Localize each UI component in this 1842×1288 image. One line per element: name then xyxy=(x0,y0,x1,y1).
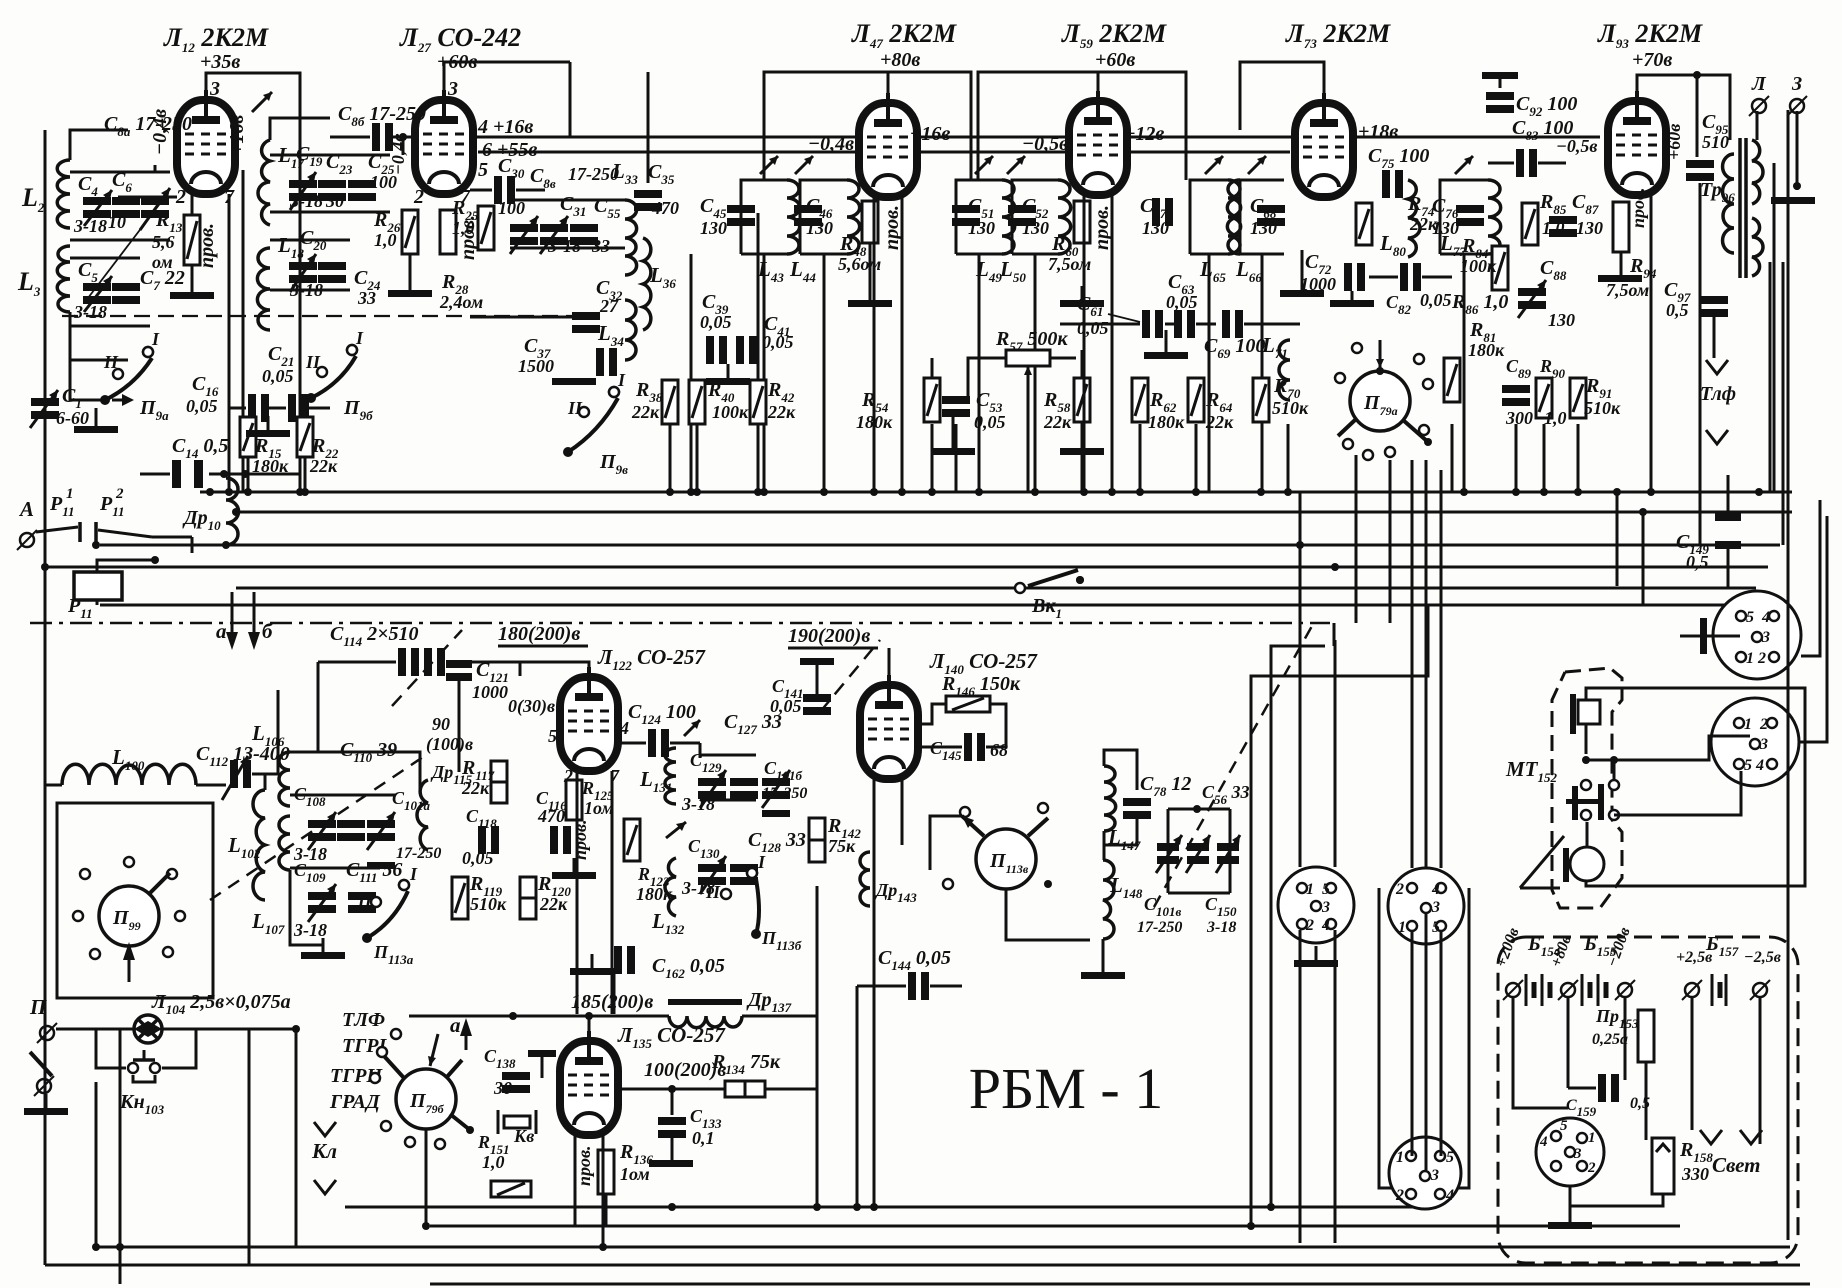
label C67 130 xyxy=(1140,195,1169,238)
speaker xyxy=(1563,847,1604,882)
wire C78 bottom xyxy=(1104,813,1137,845)
junction xyxy=(1793,182,1801,190)
wire C124 xyxy=(618,742,646,745)
wire xyxy=(1299,492,1302,867)
tank circuit L44/C46 xyxy=(800,180,860,254)
wire right edge xyxy=(1799,516,1827,742)
capacitor C110 xyxy=(337,820,365,828)
svg-text:1: 1 xyxy=(1306,881,1314,898)
junction xyxy=(222,541,230,549)
svg-text:0,05: 0,05 xyxy=(186,396,218,416)
wire R136 drop xyxy=(605,1194,608,1226)
wire C30 right xyxy=(516,189,545,192)
wire xyxy=(1425,460,1428,868)
wire mid xyxy=(1613,760,1616,779)
tube Л93 xyxy=(1608,91,1666,195)
svg-text:6-60: 6-60 xyxy=(56,408,89,428)
junction xyxy=(399,133,407,141)
svg-text:пров.: пров. xyxy=(574,1145,594,1186)
resistor R25 xyxy=(478,206,494,250)
wire xyxy=(1463,254,1466,492)
wire left col 3 xyxy=(295,1029,298,1247)
switch П9а xyxy=(100,329,160,405)
wire Л135 pin drop xyxy=(574,1135,577,1226)
wire xyxy=(1139,424,1142,492)
wire П79б drop xyxy=(425,1129,428,1226)
svg-text:+80в: +80в xyxy=(880,49,920,71)
wire anode rail xyxy=(978,72,1186,180)
svg-text:130: 130 xyxy=(806,218,833,238)
label R58 22К xyxy=(1043,389,1072,432)
label C30 100 xyxy=(498,155,525,218)
wire C149 top xyxy=(1727,475,1730,513)
svg-text:5: 5 xyxy=(1746,609,1754,626)
wire anode up xyxy=(1240,62,1324,130)
wire drop x403 xyxy=(402,137,405,155)
label C97 0,5 xyxy=(1664,279,1691,320)
wire contacts xyxy=(36,522,192,553)
wire +16В drop xyxy=(242,170,245,492)
svg-text:−0,4в: −0,4в xyxy=(808,133,854,155)
wire Л135 pin drop2 xyxy=(602,1135,605,1247)
wire C53 gnd xyxy=(952,417,955,448)
resistor R64 xyxy=(1188,378,1204,422)
terminal −2,5В xyxy=(1744,949,1781,1000)
cable wires 2 xyxy=(1412,912,1441,1170)
resistor R48 xyxy=(862,201,878,243)
junction xyxy=(206,488,214,496)
svg-text:10: 10 xyxy=(108,212,126,232)
wire caps top xyxy=(290,752,420,790)
capacitor C89 xyxy=(1502,385,1530,393)
net +16В rail xyxy=(473,136,1600,139)
capacitor C87 xyxy=(1549,216,1577,224)
resistor R13 xyxy=(184,215,200,265)
svg-text:1,0: 1,0 xyxy=(482,1152,505,1172)
contact Р11-2 xyxy=(99,486,125,519)
svg-text:5: 5 xyxy=(1560,1118,1568,1134)
trimmer arrow L77 xyxy=(1455,156,1473,174)
wire caps top xyxy=(700,754,756,757)
wire caps row xyxy=(229,407,246,410)
capacitor C138 xyxy=(502,1072,530,1080)
resistor R125 xyxy=(566,780,582,820)
mic bar xyxy=(1570,694,1576,734)
svg-text:510к: 510к xyxy=(1584,398,1621,418)
wire cathode xyxy=(1301,250,1304,290)
wire C145 xyxy=(918,746,962,749)
switch П9б xyxy=(305,328,364,403)
wire C121 down xyxy=(458,680,461,772)
label C159 0,5 xyxy=(1566,1095,1650,1119)
wire C30 xyxy=(470,189,492,192)
ground З xyxy=(1771,197,1815,204)
junction xyxy=(1512,488,1520,496)
junction xyxy=(687,488,695,496)
label C145 68 xyxy=(930,738,1008,763)
ground P1 xyxy=(1315,946,1318,960)
inductor L17 xyxy=(258,140,270,225)
svg-text:Свет: Свет xyxy=(1712,1153,1761,1177)
box caps xyxy=(1168,809,1230,893)
handset loop wire xyxy=(1586,688,1805,886)
resistor R60 xyxy=(1074,201,1090,243)
resistor R54 xyxy=(924,378,940,422)
label R40 100К xyxy=(707,379,749,422)
resistor R84 xyxy=(1492,246,1508,290)
wire R13 bottom xyxy=(191,265,194,292)
junction xyxy=(813,1203,821,1211)
capacitor C46 xyxy=(794,205,822,213)
svg-text:1: 1 xyxy=(1744,716,1752,733)
svg-text:−2,5в: −2,5в xyxy=(1744,949,1781,966)
capacitor C52 xyxy=(1008,205,1036,213)
junction xyxy=(870,488,878,496)
capacitor C141 xyxy=(803,694,831,702)
wire C83 right xyxy=(1538,162,1566,165)
wire relay top xyxy=(97,560,155,572)
wire xyxy=(1334,640,1337,867)
svg-text:470: 470 xyxy=(537,806,565,826)
svg-text:3: 3 xyxy=(1759,736,1768,753)
svg-text:0,05: 0,05 xyxy=(762,332,794,352)
svg-text:1: 1 xyxy=(66,486,74,502)
wire L2 top xyxy=(70,130,128,160)
junction xyxy=(870,1203,878,1211)
label R15 180К xyxy=(252,435,289,476)
svg-text:3: 3 xyxy=(1321,899,1330,916)
resistor R15 xyxy=(240,417,256,457)
resistor R62 xyxy=(1132,378,1148,422)
label R142 75К xyxy=(827,815,861,856)
svg-text:100: 100 xyxy=(370,172,397,192)
pointer line C61 xyxy=(1108,314,1140,322)
label C76 130 xyxy=(1432,195,1459,238)
wire row1 top xyxy=(270,154,390,157)
wire xyxy=(696,424,699,492)
dashed diag 2 xyxy=(820,640,880,712)
label C61 0,05 xyxy=(1077,293,1109,338)
label C8в 17-250 xyxy=(530,164,619,191)
resistor R158 xyxy=(1652,1138,1674,1194)
wire xyxy=(1773,163,1776,492)
label R81 180К xyxy=(1468,319,1505,360)
svg-text:а: а xyxy=(216,619,227,643)
inductor L106 xyxy=(279,752,290,806)
svg-text:130: 130 xyxy=(1142,218,1169,238)
capacitor C69 xyxy=(1222,310,1230,338)
wire anode to +35В rail xyxy=(206,73,300,492)
svg-text:I: I xyxy=(151,329,160,349)
switch П9в xyxy=(563,370,626,457)
label C72 1000 xyxy=(1300,251,1336,294)
svg-text:ТЛФ: ТЛФ xyxy=(342,1009,385,1031)
connector P2 bottom xyxy=(1389,1137,1461,1209)
battery box xyxy=(1498,937,1798,1263)
wire R134 right xyxy=(765,1088,817,1091)
wire C97 to Тлф xyxy=(1713,312,1716,358)
capacitor C127 xyxy=(730,778,758,786)
svg-text:4: 4 xyxy=(1431,881,1440,898)
wire C144 right xyxy=(930,985,962,988)
wire C1 gnd stem xyxy=(95,408,98,426)
wire xyxy=(1034,254,1037,492)
wire xyxy=(100,604,1744,607)
net: chassis dash-dot line xyxy=(30,622,1330,625)
ground R58 xyxy=(1060,448,1104,455)
connector P2 top xyxy=(1388,868,1464,944)
rotary switch П79б xyxy=(370,1029,474,1149)
fuse Пр153 xyxy=(1638,1010,1654,1062)
terminal −200В xyxy=(1604,925,1635,1000)
connector circle 1 xyxy=(1713,591,1801,679)
wire caps row xyxy=(290,794,395,797)
inductor L18 xyxy=(257,248,270,330)
wire xyxy=(1261,254,1264,492)
ground C72 xyxy=(1330,300,1374,307)
resistor R117 xyxy=(491,761,507,803)
label R62 180К xyxy=(1148,389,1185,432)
svg-text:2,4ом: 2,4ом xyxy=(439,292,483,312)
capacitor C118 xyxy=(478,826,486,854)
capacitor C114 2×510 xyxy=(398,648,445,676)
trimmer arrow 2 xyxy=(666,822,686,838)
capacitor C8б xyxy=(372,123,380,151)
junction xyxy=(232,508,240,516)
trimmer arrow L50 xyxy=(1007,156,1025,174)
long dashed diagonal 2 xyxy=(1154,626,1312,907)
capacitor C61 xyxy=(1142,310,1150,338)
junction xyxy=(292,1025,300,1033)
capacitor C45 xyxy=(727,205,755,213)
resistor R90 xyxy=(1536,378,1552,418)
trimmer arrow L17 xyxy=(252,92,272,112)
capacitor C95 xyxy=(1686,160,1714,168)
svg-text:+60в: +60в xyxy=(1095,49,1135,71)
junction xyxy=(151,556,159,564)
wire mic stub xyxy=(1585,724,1588,754)
svg-text:2: 2 xyxy=(1587,1160,1596,1176)
svg-text:0(30)в: 0(30)в xyxy=(508,696,555,717)
label R136 1ом xyxy=(619,1141,653,1184)
svg-text:+60в: +60в xyxy=(1664,124,1684,160)
svg-text:5,6: 5,6 xyxy=(152,232,175,252)
wire C141 xyxy=(816,665,819,694)
long dashed diagonal (gang link) xyxy=(210,757,423,900)
capacitor C112 trimmer xyxy=(222,756,251,800)
label C87 130 xyxy=(1572,191,1603,238)
wire xyxy=(100,544,1780,547)
junction xyxy=(1076,576,1084,584)
label C118 0,05 xyxy=(462,806,497,868)
junction xyxy=(225,488,233,496)
wire anode up xyxy=(588,1014,591,1042)
label C101б 17-250 xyxy=(762,758,807,802)
resistor R134 xyxy=(725,1081,765,1097)
svg-text:510: 510 xyxy=(1702,132,1729,152)
svg-text:2: 2 xyxy=(1395,1187,1404,1204)
wire C112 right xyxy=(252,690,278,774)
svg-text:Кл: Кл xyxy=(311,1139,337,1163)
wire anode up xyxy=(888,648,891,686)
net 90(100)В xyxy=(426,714,473,755)
junction xyxy=(220,470,228,478)
svg-text:−0,5в: −0,5в xyxy=(1556,136,1597,156)
net а arrow xyxy=(216,592,238,650)
svg-text:+18в: +18в xyxy=(1358,121,1398,143)
svg-text:1: 1 xyxy=(1396,1149,1404,1166)
svg-text:17-250: 17-250 xyxy=(762,785,807,802)
trimmer arrow L66 xyxy=(1248,156,1266,174)
label C16 0,05 xyxy=(186,373,219,416)
wire xyxy=(978,254,981,492)
wire anode up xyxy=(887,72,890,104)
wire C5 row bottom xyxy=(70,325,150,328)
wire xyxy=(1355,455,1358,623)
wire gnd xyxy=(290,870,323,945)
svg-text:3: 3 xyxy=(1761,629,1770,646)
svg-text:17-250: 17-250 xyxy=(396,845,441,862)
wire caps mid xyxy=(268,407,286,410)
resistor R151 xyxy=(491,1181,531,1197)
ground R60 xyxy=(1081,286,1084,300)
svg-text:З: З xyxy=(1791,73,1802,95)
resistor R94 xyxy=(1613,202,1629,252)
svg-text:1,0: 1,0 xyxy=(374,230,397,250)
svg-text:27: 27 xyxy=(599,296,619,316)
ground C16 C21 xyxy=(267,416,270,430)
wire cap row top xyxy=(70,171,170,174)
wire xyxy=(1411,460,1414,868)
svg-text:0,5: 0,5 xyxy=(1666,300,1689,320)
svg-text:Л: Л xyxy=(1751,73,1767,95)
capacitor C39 xyxy=(706,336,714,364)
box L100 xyxy=(57,803,213,998)
junction xyxy=(41,563,49,571)
bar C101б xyxy=(762,810,790,817)
svg-text:II: II xyxy=(305,352,321,372)
resistor R85 xyxy=(1522,203,1538,245)
wire R134 xyxy=(618,1088,725,1091)
terminal +200В xyxy=(1493,926,1523,1000)
capacitor C78 xyxy=(1123,798,1151,806)
svg-text:100к: 100к xyxy=(1460,256,1497,276)
junction xyxy=(668,1085,676,1093)
svg-text:А: А xyxy=(18,497,34,521)
svg-text:22к: 22к xyxy=(767,402,796,422)
label C52 130 xyxy=(1022,195,1049,238)
svg-text:4: 4 xyxy=(1755,757,1764,774)
label Кл xyxy=(311,1122,337,1194)
wire to pin5 xyxy=(1614,771,1741,815)
label R28 2,4ом xyxy=(439,271,483,312)
junction xyxy=(92,1243,100,1251)
svg-text:II: II xyxy=(357,890,373,910)
capacitor C6 xyxy=(112,197,140,218)
inductor L148 xyxy=(1103,860,1114,939)
resistor R42 xyxy=(750,380,766,424)
svg-text:Л73 2К2М: Л73 2К2М xyxy=(1285,19,1391,51)
svg-text:ом: ом xyxy=(152,252,173,272)
junction xyxy=(1296,541,1304,549)
capacitor C14 xyxy=(172,460,181,488)
capacitor C51 xyxy=(952,205,980,213)
resistor R146 xyxy=(946,696,990,712)
wire R142 drop xyxy=(816,886,819,1207)
choke Др137 xyxy=(668,999,742,1028)
wire xyxy=(763,254,766,492)
junction xyxy=(1639,508,1647,516)
inductor L131 xyxy=(665,748,676,804)
button Кн103 xyxy=(128,1050,160,1082)
wire Л122 pin2 drop xyxy=(576,771,579,1014)
wire xyxy=(1208,254,1211,492)
wire C92 up xyxy=(1499,78,1502,88)
svg-text:180(200)в: 180(200)в xyxy=(498,623,580,645)
ground C39 xyxy=(727,364,730,378)
capacitor C20 trimmer xyxy=(289,254,317,292)
resistor R70 xyxy=(1253,378,1269,422)
wire left col 2 xyxy=(119,1029,122,1284)
capacitor C124 xyxy=(648,729,656,757)
tube Л135 xyxy=(560,1031,618,1135)
wire drop x570 xyxy=(569,62,572,137)
label C41 0,05 xyxy=(762,313,794,352)
junction xyxy=(1755,488,1763,496)
wire C95 stub xyxy=(1696,75,1699,157)
wire C63 right xyxy=(1196,323,1216,326)
svg-text:7,5ом: 7,5ом xyxy=(1606,280,1649,300)
svg-text:180к: 180к xyxy=(1148,412,1185,432)
wire xyxy=(1389,460,1392,623)
jack Тлф chevrons xyxy=(1706,360,1728,444)
wire xyxy=(1515,424,1518,492)
ground C53 xyxy=(931,448,975,455)
capacitor C68 xyxy=(1257,205,1285,213)
wire cap row bottom xyxy=(70,239,170,242)
svg-text:+70в: +70в xyxy=(1632,49,1672,71)
svg-text:5: 5 xyxy=(1432,919,1440,936)
svg-text:4: 4 xyxy=(1539,1134,1548,1150)
tube Л12 xyxy=(177,90,235,194)
wire xyxy=(236,511,1792,514)
wire lamp right xyxy=(162,1028,296,1031)
capacitor C4 trimmer xyxy=(83,190,112,226)
svg-text:Кв: Кв xyxy=(513,1126,534,1146)
svg-text:22к: 22к xyxy=(309,456,338,476)
label R91 510К xyxy=(1584,375,1621,418)
wire C124 right xyxy=(670,742,700,745)
svg-text:0,05: 0,05 xyxy=(1166,292,1198,312)
choke Др10 xyxy=(226,478,239,545)
cable box xyxy=(1379,888,1469,1188)
svg-text:I: I xyxy=(355,328,364,348)
svg-text:РБМ - 1: РБМ - 1 xyxy=(969,1056,1163,1121)
svg-text:−0,5в: −0,5в xyxy=(1022,133,1068,155)
wire tube down2 xyxy=(901,196,904,492)
horn lines xyxy=(1520,836,1564,888)
svg-text:510к: 510к xyxy=(1272,398,1309,418)
capacitor C25 xyxy=(348,180,376,201)
label C121 1000 xyxy=(472,659,509,702)
junction xyxy=(599,1243,607,1251)
wire xyxy=(1782,262,1785,545)
gang diagonal L2 xyxy=(88,193,168,298)
svg-text:2: 2 xyxy=(1759,716,1768,733)
contact Р11-1 xyxy=(49,486,75,519)
wire xyxy=(304,458,307,492)
resistor R120 xyxy=(520,877,536,919)
